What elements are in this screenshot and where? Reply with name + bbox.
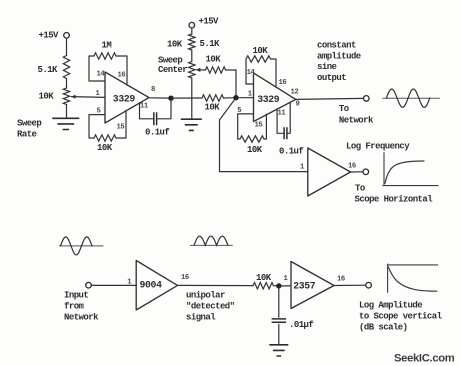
graph log amplitude axes	[388, 264, 438, 293]
svg-text:0.1uf: 0.1uf	[279, 147, 303, 157]
terminal +15V left	[64, 33, 70, 39]
junction U1 output	[168, 96, 173, 101]
op-amp U3 log frequency	[308, 148, 351, 196]
wire U5 output	[334, 284, 366, 286]
wire junction down to cap	[158, 98, 171, 119]
svg-text:Network: Network	[64, 312, 99, 322]
potentiometer Sweep Center	[189, 62, 195, 79]
op-amp U2 3329	[254, 73, 296, 122]
resistor 10K U2 feedback	[246, 56, 271, 62]
waveform detected humps	[190, 244, 233, 246]
op-amp U5 2357	[291, 262, 334, 309]
svg-text:5: 5	[97, 108, 101, 116]
svg-text:10K: 10K	[39, 92, 55, 102]
ground sweep-rate pot	[52, 118, 79, 129]
resistor 10K U2 bottom	[240, 136, 264, 142]
wire 10K to node C	[274, 285, 277, 287]
sweep center wiper arrow	[196, 69, 205, 71]
wire R to node B	[224, 97, 234, 99]
svg-text:9: 9	[296, 101, 300, 109]
resistor 10K wiper horizontal	[206, 67, 226, 73]
svg-text:To: To	[339, 104, 349, 114]
wire cap to ground	[278, 324, 280, 344]
resistor 10K U1 feedback	[94, 135, 116, 141]
waveform sine output	[382, 97, 439, 99]
svg-text:15: 15	[255, 122, 263, 130]
wire pot to ground	[66, 105, 68, 118]
svg-text:16: 16	[181, 274, 189, 282]
svg-text:3329: 3329	[257, 94, 280, 105]
svg-text:10K: 10K	[253, 46, 269, 56]
capacitor 0.1uf U2	[284, 127, 287, 139]
svg-text:9004: 9004	[140, 279, 163, 290]
svg-text:10K: 10K	[205, 103, 221, 113]
svg-text:11: 11	[140, 103, 149, 111]
capacitor 0.1uf U1	[154, 112, 157, 125]
junction node B	[233, 95, 238, 100]
svg-text:5.1K: 5.1K	[38, 65, 59, 75]
svg-text:to Scope vertical: to Scope vertical	[359, 311, 443, 321]
junction node C	[276, 283, 281, 288]
svg-text:14: 14	[247, 69, 256, 77]
potentiometer 10K Sweep Rate	[63, 88, 69, 105]
graph log frequency axes	[383, 152, 439, 185]
wire node B to U3	[220, 98, 308, 172]
svg-text:16: 16	[279, 79, 287, 87]
terminal input from network	[86, 282, 92, 288]
wire 5.1K to pot center	[191, 50, 193, 62]
svg-text:constant: constant	[317, 40, 356, 50]
svg-text:10K: 10K	[206, 55, 222, 65]
wire pot to ground center	[191, 78, 193, 119]
svg-text:Log Frequency: Log Frequency	[346, 141, 410, 151]
svg-text:"detected": "detected"	[186, 301, 235, 311]
svg-text:(dB scale): (dB scale)	[359, 322, 408, 332]
svg-text:+15V: +15V	[199, 17, 220, 27]
svg-text:sine: sine	[317, 62, 337, 72]
wire wiper R to node B	[226, 70, 237, 95]
svg-text:11: 11	[278, 110, 287, 118]
resistor 5.1K center	[189, 34, 195, 50]
svg-text:2357: 2357	[293, 281, 316, 292]
svg-text:signal: signal	[186, 312, 216, 322]
svg-text:10K: 10K	[97, 143, 113, 153]
svg-text:output: output	[317, 73, 346, 83]
svg-text:Network: Network	[339, 116, 374, 126]
svg-text:Rate: Rate	[17, 130, 37, 140]
ground sweep-center pot	[181, 119, 202, 130]
wire 0.1uf loop U2	[277, 103, 290, 134]
wire 10K loop U2 top	[246, 59, 276, 87]
resistor 5.1K vertical left	[63, 56, 69, 79]
wire 10K loop U1	[89, 110, 126, 138]
resistor 1M	[94, 53, 116, 59]
waveform input sine	[59, 245, 103, 247]
svg-text:unipolar: unipolar	[186, 290, 225, 300]
svg-text:5.1K: 5.1K	[200, 39, 221, 49]
svg-text:16: 16	[118, 72, 126, 80]
svg-text:10K: 10K	[167, 40, 183, 50]
svg-text:1M: 1M	[102, 41, 112, 51]
wire U3 output	[351, 171, 363, 173]
wire 1M loop	[89, 56, 127, 85]
graph log frequency curve	[385, 161, 425, 184]
svg-text:amplitude: amplitude	[317, 51, 361, 61]
terminal +15V center	[189, 22, 195, 28]
terminal scope vertical	[366, 282, 372, 288]
wire U4 out to 10K	[178, 284, 254, 286]
wire node B to U2	[239, 97, 254, 99]
svg-text:16: 16	[337, 276, 345, 284]
wire junction to R 10K	[174, 97, 202, 99]
svg-text:Input: Input	[64, 290, 88, 300]
wire U1 output	[149, 97, 169, 99]
svg-text:15: 15	[117, 124, 125, 132]
svg-text:3329: 3329	[113, 94, 136, 105]
wire 5.1K to pot	[66, 79, 68, 89]
wire pin11 to cap	[140, 103, 153, 119]
terminal scope horizontal	[363, 169, 369, 175]
ground detector cap	[269, 345, 288, 356]
op-amp U4 9004	[136, 261, 177, 311]
resistor 10K series	[202, 95, 224, 101]
op-amp U1 3329	[105, 72, 149, 123]
svg-text:Scope Horizontal: Scope Horizontal	[355, 195, 434, 205]
graph log amplitude curve	[388, 267, 437, 292]
svg-text:from: from	[64, 301, 85, 311]
svg-text:16: 16	[348, 163, 356, 171]
svg-text:To: To	[355, 183, 365, 193]
wire +15V to 5.1K center	[191, 28, 193, 34]
wire input to U4	[91, 284, 136, 286]
svg-text:14: 14	[97, 71, 106, 79]
svg-text:+15V: +15V	[39, 31, 60, 41]
svg-text:Center: Center	[158, 65, 187, 75]
svg-text:12: 12	[291, 89, 299, 97]
svg-text:8: 8	[151, 86, 155, 94]
wire 10K loop U2 bottom	[238, 114, 267, 139]
svg-text:.01µf: .01µf	[289, 320, 313, 330]
svg-text:10K: 10K	[247, 145, 263, 155]
capacitor .01uf	[272, 319, 287, 322]
wire U2 output	[296, 98, 364, 99]
resistor 10K detector	[253, 283, 274, 289]
svg-text:10K: 10K	[256, 273, 272, 283]
wire +15V to R 5.1K	[66, 38, 68, 55]
terminal To Network out	[364, 96, 370, 102]
pot wiper arrow / wire to U1 pin 1	[72, 96, 106, 99]
svg-text:Log Amplitude: Log Amplitude	[359, 300, 422, 310]
wire node C to U5	[282, 285, 292, 287]
svg-text:SeekIC.com: SeekIC.com	[394, 353, 455, 365]
wire node C to cap	[278, 286, 280, 317]
svg-text:Sweep: Sweep	[17, 119, 41, 129]
svg-text:0.1uf: 0.1uf	[145, 128, 169, 138]
